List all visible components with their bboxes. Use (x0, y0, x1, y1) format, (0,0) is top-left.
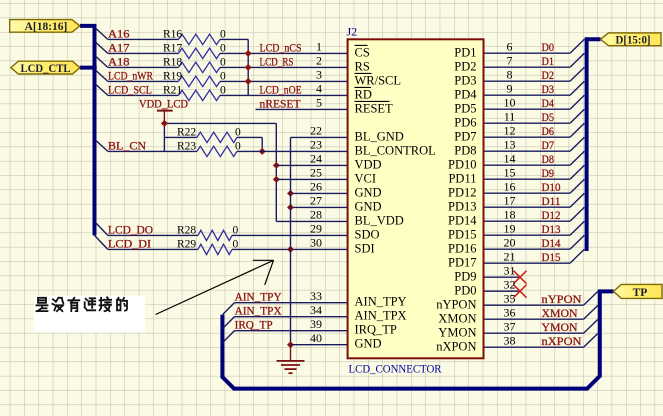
svg-text:GND: GND (355, 199, 382, 213)
svg-text:16: 16 (504, 179, 516, 193)
svg-text:PD13: PD13 (448, 200, 476, 214)
svg-text:LCD_CONNECTOR: LCD_CONNECTOR (349, 361, 442, 375)
svg-text:PD15: PD15 (448, 228, 476, 242)
svg-text:34: 34 (310, 303, 322, 317)
svg-text:PD8: PD8 (454, 144, 476, 158)
svg-text:38: 38 (504, 333, 516, 347)
svg-text:D4: D4 (542, 96, 555, 110)
svg-text:23: 23 (310, 138, 322, 152)
svg-text:D2: D2 (542, 68, 555, 82)
svg-text:AIN_TPY: AIN_TPY (235, 290, 282, 304)
svg-text:D8: D8 (542, 152, 555, 166)
svg-text:D1: D1 (542, 54, 555, 68)
svg-text:nRESET: nRESET (260, 96, 302, 110)
svg-text:37: 37 (504, 319, 516, 333)
svg-text:nXPON: nXPON (542, 334, 582, 348)
svg-text:PD11: PD11 (448, 172, 476, 186)
svg-text:22: 22 (310, 124, 322, 138)
svg-text:AIN_TPX: AIN_TPX (355, 309, 407, 323)
svg-text:SDI: SDI (355, 241, 375, 255)
svg-text:LCD_RS: LCD_RS (260, 54, 294, 68)
svg-text:33: 33 (310, 289, 322, 303)
svg-text:AIN_TPY: AIN_TPY (355, 295, 407, 309)
svg-text:0: 0 (220, 84, 226, 96)
svg-text:D10: D10 (542, 180, 561, 194)
svg-text:PD7: PD7 (454, 130, 476, 144)
svg-text:R19: R19 (163, 70, 182, 82)
svg-text:R18: R18 (163, 56, 182, 68)
svg-text:R17: R17 (163, 42, 182, 54)
svg-text:XMON: XMON (438, 312, 476, 326)
svg-text:7: 7 (507, 53, 513, 67)
svg-text:BL_VDD: BL_VDD (355, 213, 404, 227)
svg-text:BL_CONTROL: BL_CONTROL (355, 143, 436, 157)
svg-text:A[18:16]: A[18:16] (25, 21, 68, 33)
svg-text:nYPON: nYPON (542, 292, 582, 306)
svg-text:RESET: RESET (355, 101, 394, 115)
svg-text:IRQ_TP: IRQ_TP (235, 318, 273, 332)
svg-text:0: 0 (233, 224, 239, 236)
svg-text:35: 35 (504, 291, 516, 305)
svg-text:18: 18 (504, 207, 516, 221)
svg-text:LCD_DO: LCD_DO (108, 222, 153, 236)
svg-text:PD0: PD0 (454, 284, 476, 298)
svg-text:A16: A16 (108, 26, 130, 40)
svg-text:0: 0 (235, 140, 241, 152)
svg-text:J2: J2 (347, 25, 358, 39)
svg-text:WR/SCL: WR/SCL (355, 73, 402, 87)
svg-text:24: 24 (310, 152, 322, 166)
svg-text:25: 25 (310, 166, 322, 180)
svg-text:nYPON: nYPON (436, 298, 476, 312)
svg-text:R16: R16 (163, 28, 182, 40)
svg-text:SDO: SDO (355, 227, 380, 241)
svg-text:13: 13 (504, 137, 516, 151)
svg-text:36: 36 (504, 305, 516, 319)
svg-text:0: 0 (235, 126, 241, 138)
svg-text:39: 39 (310, 317, 322, 331)
svg-text:5: 5 (316, 96, 322, 110)
svg-text:LCD_nOE: LCD_nOE (260, 82, 302, 96)
svg-text:RS: RS (355, 59, 370, 73)
svg-text:0: 0 (233, 238, 239, 250)
svg-text:D6: D6 (542, 124, 555, 138)
svg-text:9: 9 (507, 81, 513, 95)
svg-text:PD6: PD6 (454, 116, 476, 130)
svg-text:VDD: VDD (355, 157, 382, 171)
svg-text:PD16: PD16 (448, 242, 476, 256)
svg-text:A18: A18 (108, 54, 130, 68)
svg-text:0: 0 (220, 70, 226, 82)
svg-text:D15: D15 (542, 250, 561, 264)
svg-text:R22: R22 (177, 126, 196, 138)
svg-text:31: 31 (504, 263, 516, 277)
svg-text:A17: A17 (108, 40, 130, 54)
svg-text:LCD_nWR: LCD_nWR (108, 68, 153, 82)
svg-text:BL_CN: BL_CN (108, 138, 146, 152)
svg-text:2: 2 (316, 54, 322, 68)
svg-text:BL_GND: BL_GND (355, 129, 404, 143)
svg-text:0: 0 (220, 42, 226, 54)
svg-text:PD9: PD9 (454, 270, 476, 284)
svg-text:3: 3 (316, 68, 322, 82)
svg-text:LCD_DI: LCD_DI (108, 236, 151, 250)
svg-text:30: 30 (310, 236, 322, 250)
svg-text:10: 10 (504, 95, 516, 109)
svg-text:11: 11 (504, 109, 516, 123)
svg-text:17: 17 (504, 193, 516, 207)
svg-text:VCI: VCI (355, 171, 377, 185)
svg-text:8: 8 (507, 67, 513, 81)
svg-text:YMON: YMON (542, 320, 578, 334)
svg-text:R28: R28 (177, 224, 196, 236)
svg-text:0: 0 (220, 28, 226, 40)
svg-text:PD12: PD12 (448, 186, 476, 200)
svg-text:XMON: XMON (542, 306, 578, 320)
svg-text:R29: R29 (177, 238, 196, 250)
svg-text:28: 28 (310, 208, 322, 222)
svg-text:15: 15 (504, 165, 516, 179)
svg-text:CS: CS (355, 45, 370, 59)
svg-text:YMON: YMON (438, 326, 476, 340)
svg-text:12: 12 (504, 123, 516, 137)
svg-text:27: 27 (310, 194, 322, 208)
svg-text:D13: D13 (542, 222, 561, 236)
svg-text:0: 0 (220, 56, 226, 68)
svg-text:D12: D12 (542, 208, 561, 222)
svg-text:D7: D7 (542, 138, 555, 152)
svg-text:PD1: PD1 (454, 46, 476, 60)
svg-text:IRQ_TP: IRQ_TP (355, 323, 397, 337)
svg-text:32: 32 (504, 277, 516, 291)
svg-text:29: 29 (310, 222, 322, 236)
svg-text:D5: D5 (542, 110, 555, 124)
svg-text:PD4: PD4 (454, 88, 477, 102)
svg-text:D9: D9 (542, 166, 555, 180)
svg-text:LCD_SCL: LCD_SCL (108, 82, 152, 96)
svg-text:PD2: PD2 (454, 60, 476, 74)
svg-text:GND: GND (355, 337, 382, 351)
svg-text:PD17: PD17 (448, 256, 476, 270)
svg-text:26: 26 (310, 180, 322, 194)
svg-text:D[15:0]: D[15:0] (616, 35, 651, 47)
svg-text:TP: TP (633, 287, 648, 299)
svg-text:D3: D3 (542, 82, 555, 96)
svg-text:R23: R23 (177, 140, 196, 152)
svg-text:VDD_LCD: VDD_LCD (139, 96, 188, 110)
svg-text:LCD_nCS: LCD_nCS (260, 40, 302, 54)
svg-text:R21: R21 (163, 84, 182, 96)
svg-text:40: 40 (310, 331, 322, 345)
svg-text:14: 14 (504, 151, 516, 165)
svg-text:4: 4 (316, 82, 322, 96)
svg-text:nXPON: nXPON (436, 340, 476, 354)
svg-text:PD14: PD14 (448, 214, 477, 228)
svg-text:6: 6 (507, 39, 513, 53)
svg-text:D14: D14 (542, 236, 561, 250)
svg-text:D0: D0 (542, 40, 555, 54)
svg-text:1: 1 (316, 40, 322, 54)
svg-text:21: 21 (504, 249, 516, 263)
svg-text:PD5: PD5 (454, 102, 476, 116)
svg-text:D11: D11 (542, 194, 561, 208)
svg-text:19: 19 (504, 221, 516, 235)
svg-text:RD: RD (355, 87, 372, 101)
svg-text:PD10: PD10 (448, 158, 476, 172)
svg-text:AIN_TPX: AIN_TPX (235, 304, 282, 318)
svg-text:LCD_CTL: LCD_CTL (21, 63, 71, 75)
svg-text:GND: GND (355, 185, 382, 199)
svg-text:PD3: PD3 (454, 74, 476, 88)
svg-text:20: 20 (504, 235, 516, 249)
